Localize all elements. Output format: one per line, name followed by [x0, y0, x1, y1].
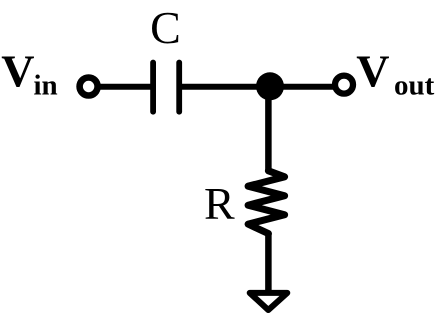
svg-text:C: C: [150, 2, 181, 53]
svg-text:R: R: [204, 178, 235, 229]
svg-text:V: V: [1, 46, 34, 97]
svg-text:out: out: [394, 70, 435, 102]
svg-text:V: V: [356, 46, 389, 97]
svg-text:in: in: [34, 69, 58, 101]
